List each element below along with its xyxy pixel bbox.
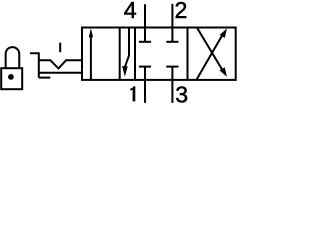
blocked port T top-left bar bbox=[139, 41, 151, 43]
detent base line bbox=[39, 77, 51, 79]
crossed arrow down-right shaft bbox=[197, 28, 223, 72]
port 2 line bbox=[171, 4, 173, 28]
padlock shackle bbox=[6, 47, 20, 68]
svg-text:3: 3 bbox=[175, 81, 188, 107]
port label 1 bbox=[130, 86, 135, 101]
left square flow arrow down (2 to 3) shaft bbox=[125, 28, 129, 67]
blocked port T bottom-right bar bbox=[166, 66, 178, 68]
blocked port T bottom-left bar bbox=[139, 66, 151, 68]
crossed arrow up-right shaft bbox=[196, 34, 223, 80]
valve body outline bbox=[82, 28, 236, 80]
square divider 2 bbox=[187, 28, 189, 80]
arrowhead down-right (X square) bbox=[220, 67, 227, 76]
detent pin bbox=[59, 43, 61, 53]
lever handle wire bbox=[30, 53, 39, 77]
padlock keyhole dot bbox=[8, 74, 14, 80]
arrowhead down (left square) bbox=[122, 66, 128, 77]
arrowhead up-right (X square) bbox=[220, 29, 227, 38]
detent lower plate bbox=[38, 72, 82, 74]
blocked port T top-right bar bbox=[166, 41, 178, 43]
port 3 line bbox=[171, 80, 173, 103]
blocked port T bottom-left stem bbox=[144, 67, 146, 80]
arrowhead up (left square) bbox=[89, 28, 93, 37]
padlock body bbox=[1, 68, 22, 89]
left square flow arrow up (1 to 4) shaft bbox=[90, 37, 92, 80]
blocked port T bottom-right stem bbox=[171, 67, 173, 80]
port 4 line bbox=[144, 4, 146, 27]
port 1 line bbox=[144, 80, 146, 103]
svg-text:2: 2 bbox=[175, 0, 188, 23]
detent notched plate bbox=[38, 60, 82, 68]
square divider 1 bbox=[134, 28, 136, 80]
left square vertical flow line bbox=[119, 28, 121, 80]
blocked port T top-right stem bbox=[171, 28, 173, 42]
blocked port T top-left stem bbox=[144, 28, 146, 42]
svg-text:4: 4 bbox=[124, 0, 137, 23]
